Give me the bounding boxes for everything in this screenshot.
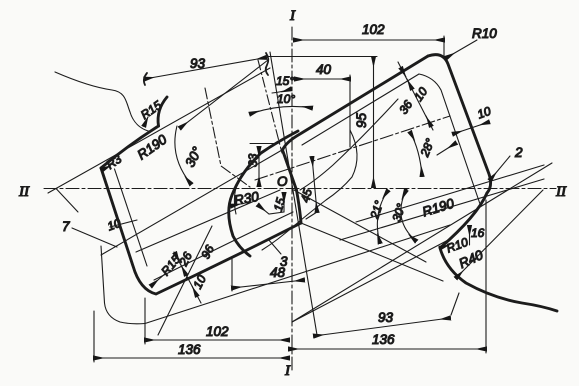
angle arc 28 deg <box>410 132 422 176</box>
dimension 136 bottom right <box>289 348 486 350</box>
inner curve beta <box>262 130 357 250</box>
construction tangent line A <box>180 60 268 128</box>
svg-text:10: 10 <box>411 84 430 103</box>
svg-text:R10: R10 <box>472 26 497 41</box>
svg-text:48: 48 <box>270 265 286 280</box>
contour: left template break curve (thin) <box>55 72 150 132</box>
dimension 102 bottom <box>145 339 289 341</box>
contour: left template right end R30 sweep (thick) <box>229 131 298 256</box>
svg-text:93: 93 <box>190 56 206 71</box>
junction dot <box>405 188 408 191</box>
extension line x486 <box>485 200 487 353</box>
svg-text:40: 40 <box>316 62 332 77</box>
svg-text:15°: 15° <box>276 74 294 88</box>
svg-text:10°: 10° <box>277 92 295 106</box>
construction ray 1 <box>292 163 552 322</box>
dimension 45 <box>312 157 317 212</box>
svg-text:R190: R190 <box>135 132 170 163</box>
construction line B 30 deg <box>48 68 270 193</box>
contour: right template left end thin corner <box>101 246 145 324</box>
svg-text:7: 7 <box>62 219 70 234</box>
svg-text:136: 136 <box>372 332 395 347</box>
construction 21 deg line <box>301 223 443 281</box>
dimension 136 bottom left <box>94 357 289 359</box>
dimension 33 <box>250 143 278 145</box>
dimension 40 <box>295 78 350 80</box>
svg-text:R190: R190 <box>421 196 457 220</box>
construction 30 deg line right <box>294 190 426 262</box>
svg-text:II: II <box>555 184 567 200</box>
construction line at vertex <box>56 189 78 213</box>
contour: right template top edge thin extension <box>101 150 282 255</box>
construction 15 deg dashed line <box>258 60 282 153</box>
svg-text:21°: 21° <box>367 199 386 222</box>
angle arc 30 deg left <box>175 126 191 184</box>
break tick left <box>144 73 147 85</box>
dimension 102 top <box>294 39 444 41</box>
extension line 40 <box>349 75 351 147</box>
contour: left template R190 top edge (thick) <box>101 126 159 168</box>
inner curve alpha <box>300 99 398 190</box>
contour: right template top edge with bend (thick) <box>283 56 429 223</box>
svg-text:95: 95 <box>354 112 369 128</box>
svg-text:93: 93 <box>378 310 394 325</box>
dimension 93 bottom <box>314 318 450 336</box>
extension line 102 right <box>443 36 445 56</box>
svg-text:136: 136 <box>178 342 201 357</box>
contour: right template bottom edge thin <box>145 225 450 324</box>
svg-text:45: 45 <box>298 187 315 204</box>
svg-text:R15: R15 <box>138 98 164 122</box>
svg-text:2: 2 <box>514 145 523 160</box>
angle arc 30 deg right <box>401 191 416 242</box>
dimension 10/36 line <box>398 62 433 130</box>
internal margin bottom a <box>154 212 293 280</box>
centerline axis I-I vertical <box>291 27 293 370</box>
svg-text:102: 102 <box>362 22 385 37</box>
dimension 48 <box>232 280 304 288</box>
centerline axis II-II horizontal <box>44 188 556 190</box>
svg-text:I: I <box>289 8 296 24</box>
contour: right template break S-curve bottom right (thick) <box>440 193 557 311</box>
svg-text:96: 96 <box>198 243 217 262</box>
radius line R190 right <box>356 165 544 222</box>
centerline stub left template <box>205 88 250 187</box>
svg-text:10: 10 <box>475 104 493 122</box>
svg-text:I: I <box>284 363 291 379</box>
svg-text:102: 102 <box>206 324 229 339</box>
internal margin bottom b <box>136 190 280 252</box>
dimension 93 top <box>145 58 267 80</box>
svg-text:16: 16 <box>471 226 485 240</box>
svg-text:33: 33 <box>246 153 260 167</box>
contour: left template left side and R15 corner and bottom edge (thick) <box>101 168 301 294</box>
construction 10 deg line through O <box>270 52 317 335</box>
angle arc 21 deg <box>377 191 388 244</box>
dimension 95 <box>373 57 375 187</box>
contour: right template R10 corner and right edge (thick) <box>428 55 491 193</box>
svg-text:36: 36 <box>396 97 415 116</box>
contour: left template R15 break curl (thick) <box>158 97 167 126</box>
svg-text:O: O <box>277 174 288 189</box>
internal margin right template top and corner <box>302 74 480 204</box>
svg-text:15: 15 <box>271 196 288 213</box>
internal margin sweep <box>234 158 258 214</box>
svg-text:R3: R3 <box>104 152 125 172</box>
dimension 26/10 line <box>174 252 201 303</box>
svg-text:II: II <box>18 184 30 200</box>
break tick right <box>266 53 269 75</box>
extension line top horizontal <box>268 56 377 58</box>
internal margin left side <box>115 169 148 266</box>
svg-text:28°: 28° <box>417 136 437 159</box>
svg-text:30°: 30° <box>182 144 205 170</box>
dimension 10 right edge <box>453 122 489 134</box>
construction ray 2 <box>292 238 452 322</box>
dimension 96 line <box>158 226 212 335</box>
centerline right template axis <box>255 116 450 180</box>
